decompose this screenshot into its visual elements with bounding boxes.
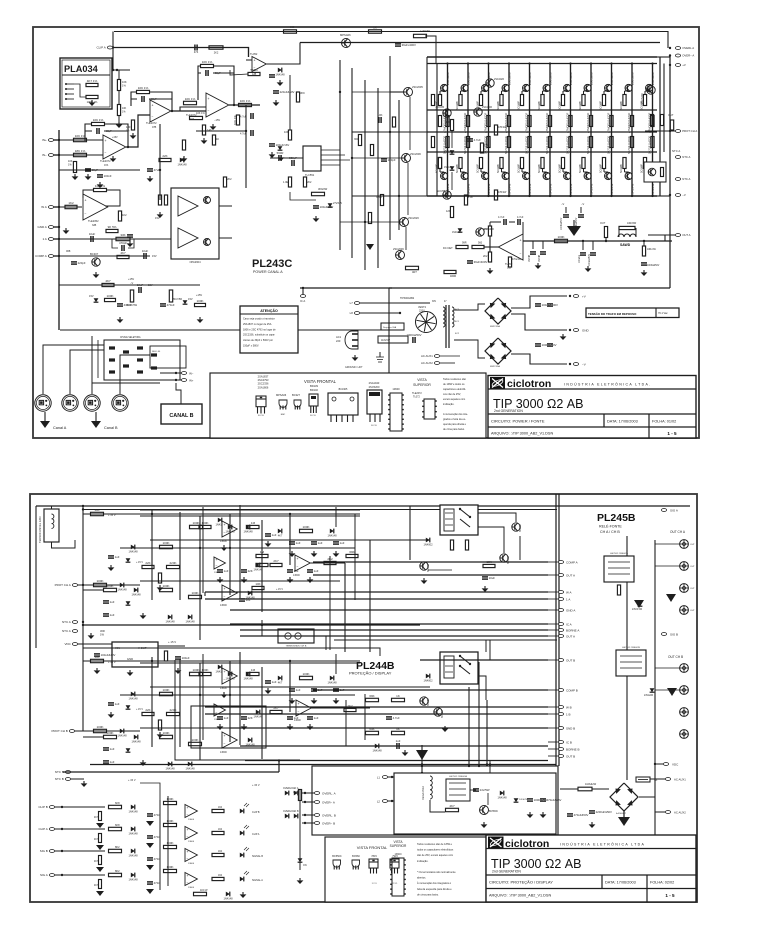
package TO-92 b bbox=[294, 400, 301, 407]
ground extra f A2 bbox=[309, 577, 311, 579]
diode 1N4148 mid A bbox=[131, 545, 135, 550]
svg-text:INDÚSTRIA ELETRÔNICA LTDA: INDÚSTRIA ELETRÔNICA LTDA bbox=[560, 842, 645, 847]
wire vertical route x262 bbox=[261, 520, 263, 612]
svg-text:22K: 22K bbox=[162, 154, 167, 158]
diode extra c A2 bbox=[256, 563, 260, 568]
terminal 1 A bbox=[48, 238, 53, 241]
resistor 10K mid column bbox=[370, 145, 373, 156]
connector XLR 3 bbox=[84, 395, 100, 411]
wire re bottom link 4 bbox=[501, 169, 503, 173]
svg-text:2SC5200: 2SC5200 bbox=[549, 72, 553, 85]
svg-text:10K 1%: 10K 1% bbox=[185, 97, 196, 101]
wire cluster A drop 1 bbox=[204, 592, 206, 596]
svg-text:1K0 W: 1K0 W bbox=[200, 889, 208, 892]
wire mid net bbox=[230, 70, 248, 75]
wire extra h1 A2 bbox=[96, 513, 360, 515]
package TO-264 bbox=[367, 390, 382, 414]
svg-text:5Ω1WF: 5Ω1WF bbox=[476, 163, 480, 173]
transistor Q6 bias bbox=[396, 251, 405, 260]
capacitor 4.7uF stage a bbox=[250, 113, 252, 119]
node array col top 11 bbox=[651, 62, 653, 64]
svg-text:SAWD: SAWD bbox=[620, 243, 631, 247]
transistor Q26 2SC5200 bbox=[564, 84, 571, 91]
wire route mid vertical x345 bbox=[344, 563, 346, 652]
terminal GND supply bbox=[569, 329, 571, 331]
package TO-92 p2 b bbox=[352, 860, 360, 867]
resistor 6K8 CLIP B bbox=[109, 805, 122, 808]
svg-text:todos os capacitores eletrolí: todos os capacitores eletrolíticos bbox=[417, 849, 454, 852]
ground GROUND LIFT bbox=[354, 355, 356, 357]
svg-text:110V/0V: 110V/0V bbox=[381, 339, 390, 342]
resistor 69K rly b bbox=[366, 698, 379, 701]
node overload top bbox=[421, 765, 423, 767]
terminal NTC A lower bbox=[675, 178, 680, 181]
ground arrow jacks A bbox=[666, 594, 676, 602]
wire re top link 2 bbox=[460, 91, 462, 95]
wire -15 rail lower bbox=[59, 284, 200, 286]
ground rail right bbox=[199, 317, 201, 319]
svg-text:2SC4793: 2SC4793 bbox=[258, 378, 269, 382]
wire supply section top border bbox=[60, 329, 389, 331]
diode 15A1A1 b bbox=[450, 166, 455, 170]
svg-text:8K2: 8K2 bbox=[115, 845, 120, 849]
wire reg input bbox=[90, 643, 112, 645]
capacitor 10uF rly a bbox=[482, 576, 488, 578]
wire feedback U1A bbox=[85, 124, 92, 141]
capacitor 1uF mid A bbox=[108, 555, 114, 557]
svg-text:AC AUX2: AC AUX2 bbox=[421, 361, 433, 365]
box thermal NTC bbox=[644, 162, 666, 182]
wire comp out bbox=[267, 43, 301, 65]
coil degauss bbox=[430, 776, 432, 799]
terminal BORNE A p2 col bbox=[558, 629, 563, 632]
svg-text:TLE2072: TLE2072 bbox=[100, 159, 111, 163]
transistor Q37 2SA1943 bbox=[564, 172, 571, 179]
svg-text:5Ω1WF: 5Ω1WF bbox=[578, 100, 582, 110]
svg-text:OVERL. B: OVERL. B bbox=[322, 813, 336, 817]
svg-text:100K: 100K bbox=[162, 731, 169, 735]
terminal OUT B p2 upper bbox=[558, 659, 563, 662]
svg-text:IN+: IN+ bbox=[189, 379, 194, 383]
op-amp comparator SIG B bbox=[185, 849, 197, 862]
wire array mid rail 2 bbox=[427, 131, 657, 133]
svg-text:GND A: GND A bbox=[566, 608, 575, 612]
svg-text:À numeração dos integrados é: À numeração dos integrados é bbox=[417, 882, 452, 885]
terminal SND B p2 col bbox=[558, 727, 563, 730]
svg-text:indicação.: indicação. bbox=[443, 403, 455, 406]
resistor 2K2 sum out bbox=[324, 561, 336, 564]
wire output column 3 bbox=[488, 64, 490, 197]
wire array right link a bbox=[659, 57, 661, 196]
connector RCA jack B1 bbox=[680, 664, 689, 673]
terminal SIG B p2 bbox=[49, 850, 54, 853]
resistor array left margin a bbox=[431, 95, 434, 106]
wire rly vertical nets bbox=[364, 694, 366, 740]
wire jumper nets bbox=[92, 336, 160, 383]
svg-text:B C E: B C E bbox=[310, 415, 316, 417]
node u2a out bbox=[233, 104, 235, 106]
terminal OUT A bbox=[675, 234, 680, 237]
svg-text:5Ω1WF: 5Ω1WF bbox=[455, 100, 459, 110]
svg-text:CIRCUITO: PROTEÇÃO / DISPLAY: CIRCUITO: PROTEÇÃO / DISPLAY bbox=[489, 880, 553, 885]
wire supply section divider bbox=[388, 288, 390, 375]
svg-text:CH A / CH B: CH A / CH B bbox=[600, 530, 620, 534]
svg-text:69K: 69K bbox=[349, 550, 354, 554]
resistor 15V clip right bbox=[298, 790, 301, 801]
resistor 100R 1% in PLA034 bbox=[86, 95, 98, 98]
capacitor c1 A bbox=[289, 541, 295, 543]
capacitor 100K 250V zobel bbox=[641, 262, 647, 264]
svg-text:−: − bbox=[208, 109, 210, 113]
ground cap CLIP B bbox=[146, 821, 154, 826]
resistor 100K zener bbox=[105, 298, 116, 301]
svg-text:560R: 560R bbox=[277, 151, 284, 155]
IC U20 regulator 7815 bbox=[112, 642, 158, 667]
wire re bottom link 7 bbox=[562, 169, 564, 173]
bridge rectifier BR3 bbox=[610, 783, 638, 811]
svg-text:capacitores eletrolíti-: capacitores eletrolíti- bbox=[443, 388, 466, 391]
ground driver mid bbox=[366, 244, 374, 250]
ground rly b2 bbox=[444, 726, 446, 728]
node SIG A bbox=[61, 874, 63, 876]
node array col top 10 bbox=[631, 62, 633, 64]
svg-text:2SC5200: 2SC5200 bbox=[569, 72, 573, 85]
wire prot ch a bbox=[645, 130, 675, 132]
capacitor filter b bbox=[547, 303, 553, 305]
svg-text:+: + bbox=[187, 850, 189, 854]
svg-text:2SC2336: 2SC2336 bbox=[258, 382, 269, 386]
terminal COMP A p2 bbox=[558, 561, 563, 564]
svg-text:BC307: BC307 bbox=[90, 252, 99, 256]
svg-text:470n: 470n bbox=[154, 857, 161, 861]
svg-text:220: 220 bbox=[336, 339, 341, 343]
svg-text:100K: 100K bbox=[201, 521, 208, 525]
wire array top rail bbox=[427, 56, 657, 58]
ground bottom caps bbox=[591, 822, 593, 824]
svg-text:2SA1943: 2SA1943 bbox=[446, 183, 450, 196]
jumper pads bbox=[109, 346, 115, 349]
op-amp comparator CLIP B bbox=[185, 805, 197, 818]
svg-text:8K2: 8K2 bbox=[115, 869, 120, 873]
ground canal a bbox=[40, 421, 50, 428]
resistor 1K0 W bottom bbox=[194, 892, 207, 895]
transistor Q8 ECC5B bbox=[443, 191, 451, 199]
svg-text:TL052: TL052 bbox=[250, 52, 258, 56]
svg-text:100K: 100K bbox=[192, 668, 199, 672]
svg-text:1M: 1M bbox=[251, 668, 256, 672]
connector RCA jack A1 bbox=[680, 540, 689, 549]
svg-text:GND A: GND A bbox=[37, 225, 46, 229]
svg-text:KBPC35A: KBPC35A bbox=[490, 325, 500, 328]
ground c3 B bbox=[335, 698, 337, 700]
node array col bottom 5 bbox=[528, 195, 530, 197]
zener 47uF 16V bbox=[278, 146, 283, 150]
capacitor 560R bbox=[278, 155, 280, 161]
resistor base col 10 bbox=[630, 116, 633, 127]
svg-text:1N4002: 1N4002 bbox=[423, 542, 433, 546]
resistor RE top col 3 bbox=[479, 95, 482, 106]
svg-text:−V: −V bbox=[682, 193, 686, 197]
wire output column 6 bbox=[549, 64, 551, 197]
svg-text:NTC B: NTC B bbox=[55, 777, 64, 781]
node array col bottom 10 bbox=[631, 195, 633, 197]
svg-text:OUT: OUT bbox=[690, 566, 695, 568]
svg-text:−: − bbox=[187, 812, 189, 816]
svg-text:BC550C: BC550C bbox=[489, 810, 498, 813]
capacitor 1N4148 SIG A bbox=[131, 873, 135, 878]
wire re top link 6 bbox=[542, 91, 544, 95]
svg-text:BC550C: BC550C bbox=[332, 855, 342, 858]
svg-text:PROT CH A: PROT CH A bbox=[55, 583, 71, 587]
transformer T1 windings bbox=[445, 305, 447, 348]
svg-text:69K: 69K bbox=[369, 694, 374, 698]
terminal GND A bbox=[48, 226, 53, 229]
transistor Q20 2SC5200 bbox=[441, 84, 448, 91]
resistor RE top col 10 bbox=[623, 95, 626, 106]
resistor 100K mid B bbox=[160, 692, 173, 695]
wire centre vertical 2 bbox=[351, 68, 353, 258]
svg-text:2SC5200: 2SC5200 bbox=[590, 72, 594, 85]
wire aux2 feed bbox=[639, 797, 665, 812]
resistor 3K9 vas bbox=[296, 92, 299, 102]
resistor base col 11 bbox=[651, 116, 654, 127]
capacitor 470uF 50V bbox=[567, 813, 573, 815]
package TO-126 bbox=[309, 394, 318, 406]
transistor Q34 2SA1943 bbox=[502, 172, 509, 179]
resistor base col 3 bbox=[487, 116, 490, 127]
svg-text:4K7: 4K7 bbox=[120, 251, 126, 255]
wire vertical route x262 B bbox=[261, 667, 263, 759]
svg-text:1%: 1% bbox=[122, 84, 126, 88]
wire cluster vertical B bbox=[202, 654, 204, 740]
wire extra v3 B2 bbox=[289, 661, 291, 712]
svg-text:BC548: BC548 bbox=[427, 564, 430, 572]
resistor 47R 2W top bbox=[414, 34, 427, 37]
resistor 470R 1W low bbox=[508, 257, 511, 267]
resistor 100K in2 B bbox=[189, 742, 202, 745]
svg-text:5Ω1WF: 5Ω1WF bbox=[640, 163, 644, 173]
svg-text:5Ω1WF: 5Ω1WF bbox=[517, 163, 521, 173]
svg-text:de cima para baixo.: de cima para baixo. bbox=[443, 428, 465, 431]
capacitor extra j A2 bbox=[265, 533, 271, 535]
transformer primary coil bbox=[443, 307, 445, 327]
connector CN1 pins bbox=[65, 83, 67, 85]
svg-text:4.7uF: 4.7uF bbox=[517, 216, 524, 219]
capacitor 470pF parallel bbox=[121, 245, 123, 251]
node feed b riser bbox=[278, 759, 280, 761]
svg-text:CLIP A: CLIP A bbox=[97, 46, 106, 50]
svg-text:220pF: 220pF bbox=[78, 261, 86, 265]
ground u2a below bbox=[203, 138, 205, 140]
svg-text:L1: L1 bbox=[377, 775, 381, 779]
diode out right A bbox=[278, 529, 282, 534]
wire re bottom link 6 bbox=[542, 169, 544, 173]
ground extra b B2 bbox=[243, 724, 245, 726]
resistor 10K 1% bus b bbox=[117, 105, 120, 116]
svg-text:querda para direita e: querda para direita e bbox=[443, 423, 467, 426]
svg-text:5Ω1WF: 5Ω1WF bbox=[517, 100, 521, 110]
capacitor filter d bbox=[547, 343, 553, 345]
svg-text:ARQUIVO: .\TIP 3000_AB2_V1.DSN: ARQUIVO: .\TIP 3000_AB2_V1.DSN bbox=[489, 894, 551, 898]
relay K1 coil bbox=[444, 509, 454, 531]
diode 1N4148 out1 A bbox=[246, 525, 250, 530]
svg-text:VDC: VDC bbox=[672, 762, 679, 766]
ground reg gnd pin bbox=[129, 670, 131, 672]
svg-text:Disjuntor 20A: Disjuntor 20A bbox=[383, 326, 397, 329]
capacitor 10uF comp right bbox=[143, 253, 145, 259]
svg-text:HS/THY CREG2A: HS/THY CREG2A bbox=[610, 552, 628, 555]
svg-text:2SC5200: 2SC5200 bbox=[487, 72, 491, 85]
wire parallel cap bbox=[112, 239, 118, 248]
svg-text:110K&2W: 110K&2W bbox=[585, 783, 597, 786]
svg-text:NTC A: NTC A bbox=[682, 155, 690, 159]
svg-text:13600: 13600 bbox=[220, 751, 227, 754]
svg-text:33K: 33K bbox=[120, 233, 125, 237]
wire vas out pins bbox=[321, 149, 340, 151]
ground reg in bbox=[96, 668, 98, 670]
relay K2 contacts bbox=[460, 656, 470, 664]
wire OVER&#8722; B feed bbox=[302, 822, 314, 824]
package DIP16 p2 bbox=[392, 858, 404, 896]
ground c1 B bbox=[291, 698, 293, 700]
wire bottom rail p2 bbox=[90, 764, 556, 766]
capacitor 33pF feedback U1A bbox=[96, 128, 98, 134]
svg-text:10uF: 10uF bbox=[89, 232, 96, 236]
ground bus res bbox=[118, 122, 120, 124]
svg-text:13600: 13600 bbox=[220, 604, 227, 607]
svg-text:DC DET: DC DET bbox=[443, 246, 453, 250]
resistor 100K comp SIG A bbox=[164, 869, 177, 872]
terminal GND A p2 col bbox=[558, 609, 563, 612]
wire COMP A row bbox=[55, 255, 100, 257]
svg-text:15V: 15V bbox=[89, 294, 94, 298]
resistor 10K rail A bbox=[91, 512, 104, 515]
resistor 100K prot chb bbox=[94, 729, 107, 732]
terminal COMP A bbox=[48, 255, 53, 258]
resistor 69K right bbox=[346, 554, 358, 557]
svg-text:10K: 10K bbox=[94, 508, 99, 512]
resistor mid col 5 bbox=[528, 137, 531, 148]
svg-text:TERMOSTATO CH B: TERMOSTATO CH B bbox=[286, 645, 307, 648]
box title block p2 bbox=[486, 835, 696, 902]
wire bus pair b bbox=[558, 494, 560, 766]
terminal AC AUX2 bbox=[434, 362, 439, 365]
svg-text:SIGNAL A: SIGNAL A bbox=[252, 879, 263, 882]
resistor mid col 4 bbox=[507, 137, 510, 148]
zener mid B bbox=[126, 705, 131, 709]
svg-text:COMP A: COMP A bbox=[35, 254, 47, 258]
svg-text:100K: 100K bbox=[162, 584, 169, 588]
svg-text:TLE2052: TLE2052 bbox=[88, 219, 99, 223]
terminal COMP B p2 bbox=[558, 689, 563, 692]
svg-text:2SC5200: 2SC5200 bbox=[651, 72, 655, 85]
capacitor c2 B bbox=[311, 688, 317, 690]
resistor 10Rx1W zobel bbox=[642, 246, 645, 256]
resistor 100K out B bbox=[300, 676, 313, 679]
package TO-220 p2 b bbox=[390, 859, 399, 862]
svg-text:10K 1%: 10K 1% bbox=[196, 112, 206, 115]
svg-text:TL052: TL052 bbox=[505, 262, 513, 266]
wire terminal feeds B bbox=[548, 659, 558, 661]
relay K2 coil bbox=[444, 656, 454, 678]
resistor 10K mid right bbox=[252, 586, 264, 589]
svg-text:1N4148: 1N4148 bbox=[253, 567, 263, 571]
node array col bottom 11 bbox=[651, 195, 653, 197]
svg-text:2SC2026: 2SC2026 bbox=[408, 216, 419, 220]
svg-text:13600: 13600 bbox=[395, 853, 403, 856]
transistor Q10 right top bbox=[486, 79, 494, 87]
svg-text:100nF: 100nF bbox=[104, 174, 112, 178]
svg-text:1N4148: 1N4148 bbox=[117, 587, 127, 591]
ground comp bbox=[279, 80, 281, 82]
transistor Q22 2SC5200 bbox=[482, 84, 489, 91]
ground rly a2 bbox=[423, 578, 425, 580]
svg-text:1K2: 1K2 bbox=[68, 201, 74, 205]
svg-text:4K7: 4K7 bbox=[449, 804, 455, 808]
wire bus res link bbox=[118, 70, 120, 80]
svg-text:PLA034: PLA034 bbox=[64, 64, 99, 74]
capacitor 39uF 400V bbox=[395, 43, 401, 45]
svg-text:+15V: +15V bbox=[128, 277, 134, 281]
svg-text:1uF: 1uF bbox=[110, 600, 115, 604]
resistor RE bottom col 8 bbox=[582, 158, 585, 169]
wire net route i bbox=[334, 639, 557, 641]
wire array feed low bbox=[408, 195, 427, 197]
resistor 69K rly b2 bbox=[366, 731, 379, 734]
component thermostat CH A bbox=[278, 629, 314, 643]
capacitor extra f A2 bbox=[307, 569, 313, 571]
wire net route g bbox=[35, 506, 37, 648]
wire out to terminal bbox=[660, 235, 673, 241]
svg-text:2SC5200: 2SC5200 bbox=[369, 385, 380, 389]
wire feed IC A long bbox=[230, 623, 548, 625]
diode 1N4148 comp bbox=[278, 68, 282, 73]
svg-text:A7MΩF5 0.47ΩF: A7MΩF5 0.47ΩF bbox=[504, 112, 508, 133]
ground c2 A bbox=[313, 551, 315, 553]
wire re top link 10 bbox=[624, 91, 626, 95]
resistor 10K 1% inter bbox=[184, 101, 197, 104]
wire ac aux bbox=[440, 355, 460, 357]
resistor 10K 1% down bbox=[236, 115, 239, 125]
resistor 100K row2 A bbox=[104, 588, 117, 591]
svg-text:2SC5200: 2SC5200 bbox=[631, 72, 635, 85]
wire feed OUT B2 long bbox=[63, 771, 279, 773]
wire title p2 row line3 bbox=[486, 888, 696, 890]
capacitor 470uF 25V deg bbox=[540, 798, 546, 800]
box Disjuntor 20A bbox=[381, 323, 404, 330]
svg-text:1N4148: 1N4148 bbox=[372, 748, 382, 752]
node CLIP B bbox=[61, 806, 63, 808]
wire vertical route x200 B bbox=[199, 663, 201, 760]
svg-text:TL072: TL072 bbox=[413, 396, 420, 399]
svg-text:220K: 220K bbox=[169, 561, 176, 565]
transistor Q41 2SA1943 bbox=[646, 172, 653, 179]
svg-text:5Ω1WF: 5Ω1WF bbox=[558, 163, 562, 173]
svg-text:2SA1943: 2SA1943 bbox=[631, 183, 635, 196]
node ntc a bus bbox=[82, 624, 84, 626]
wire extra h2 A2 bbox=[120, 547, 355, 549]
wire array bottom rail bbox=[427, 195, 657, 197]
box ATENCAO bbox=[240, 306, 298, 353]
svg-text:TENSÃO DO TRAFO EM REPOUSO: TENSÃO DO TRAFO EM REPOUSO bbox=[588, 311, 637, 316]
resistor RE bottom col 3 bbox=[479, 158, 482, 169]
svg-text:+: + bbox=[224, 523, 226, 527]
svg-text:OUT: OUT bbox=[690, 588, 695, 590]
resistor 18K 1% bbox=[74, 153, 87, 156]
transistor Q40 BC550C bbox=[480, 806, 489, 815]
resistor RE bottom col 10 bbox=[623, 158, 626, 169]
zener row2 A bbox=[126, 601, 131, 605]
